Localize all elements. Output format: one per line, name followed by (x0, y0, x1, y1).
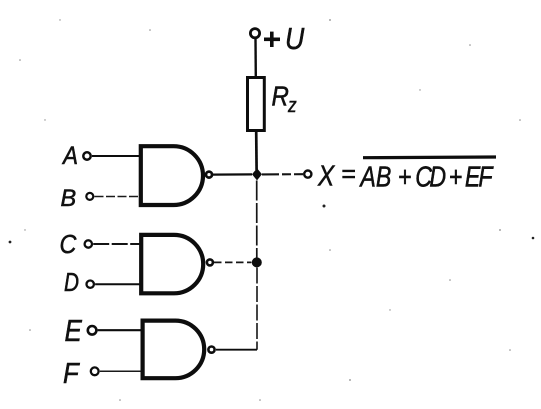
svg-text:D: D (64, 268, 79, 297)
svg-text:E: E (65, 314, 83, 349)
svg-text:F: F (63, 357, 80, 390)
svg-text:A: A (61, 142, 78, 170)
svg-text:X: X (317, 160, 335, 192)
svg-text:B: B (61, 185, 77, 212)
svg-text:C: C (60, 231, 77, 259)
svg-text:U: U (285, 22, 305, 56)
svg-text:=: = (341, 160, 356, 188)
svg-text:AB+CD+EF: AB+CD+EF (359, 160, 495, 193)
